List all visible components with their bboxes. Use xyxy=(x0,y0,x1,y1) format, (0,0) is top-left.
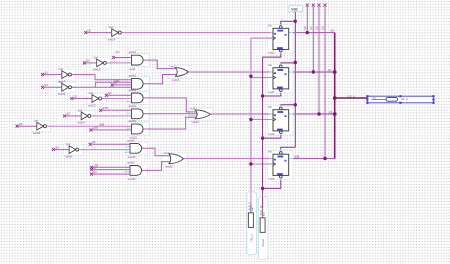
input terminal Q1B (gate feed 5) xyxy=(90,126,132,132)
svg-text:Q1: Q1 xyxy=(309,26,313,30)
svg-text:inst29: inst29 xyxy=(128,155,136,159)
input connector Reset xyxy=(258,197,268,260)
input terminal Q2 (inverter feed 5) xyxy=(70,94,92,100)
wire inv5 out to AND3 xyxy=(102,98,132,100)
svg-text:inst15: inst15 xyxy=(172,78,180,82)
wire clock branch FF3 xyxy=(251,119,273,121)
svg-text:Q3: Q3 xyxy=(55,145,59,149)
svg-text:Q1: Q1 xyxy=(44,83,48,87)
svg-text:an3b2: an3b2 xyxy=(129,119,137,123)
Vdd rail wire xyxy=(294,12,296,148)
svg-text:Q1B: Q1B xyxy=(102,106,108,110)
input terminal Q3 (inverter feed 7) xyxy=(16,122,37,128)
svg-text:inst24: inst24 xyxy=(77,121,85,125)
svg-text:inst11: inst11 xyxy=(65,154,73,158)
inverter inst19 xyxy=(56,67,76,83)
junction xyxy=(261,94,264,97)
input connector Clk_in xyxy=(247,192,257,255)
input terminal Q1 (gate feed 3) xyxy=(105,91,132,97)
svg-text:Q3..0: Q3..0 xyxy=(348,94,355,98)
AND gate inst30 xyxy=(125,161,148,182)
svg-text:inst2: inst2 xyxy=(268,90,274,94)
wire AND2 out to xor1 in2 xyxy=(143,75,176,84)
svg-text:1u4: 1u4 xyxy=(59,67,64,71)
terminal rail Q3 xyxy=(321,4,327,159)
wire FF4 Q to bus xyxy=(294,158,335,160)
wire clock branch FF4 xyxy=(251,163,273,165)
flip-flop inst1 xyxy=(268,24,294,55)
junction xyxy=(323,157,326,160)
wire Vdd to FF4 PRE xyxy=(281,147,296,149)
AND gate inst7 xyxy=(126,73,149,90)
junction xyxy=(333,96,337,100)
junction xyxy=(294,20,297,23)
svg-text:Q3: Q3 xyxy=(92,140,96,144)
svg-text:inst3: inst3 xyxy=(268,132,274,136)
svg-text:inst6: inst6 xyxy=(129,67,135,71)
wire AND4 out to xor2 in2 xyxy=(143,113,196,115)
svg-text:XLXI_10: XLXI_10 xyxy=(259,205,263,216)
inverter inst23 xyxy=(86,91,106,107)
inverter inst20 xyxy=(56,80,76,96)
input terminal Q1 (inverter feed 3) xyxy=(41,70,62,76)
wire FF1 CLR to clear rail xyxy=(263,54,281,189)
wire FF2 Q to bus xyxy=(294,68,335,72)
svg-text:inst23: inst23 xyxy=(88,103,96,107)
svg-text:Q0: Q0 xyxy=(331,29,335,33)
wire inv8 out to AND6 xyxy=(79,149,130,151)
svg-text:Q2: Q2 xyxy=(93,166,97,170)
svg-text:XLXI_9: XLXI_9 xyxy=(247,201,251,210)
svg-text:1u4: 1u4 xyxy=(34,119,39,123)
svg-text:Q3: Q3 xyxy=(321,26,325,30)
junction xyxy=(312,70,315,73)
bus Q3..0 vertical xyxy=(334,33,336,159)
svg-text:Reset: Reset xyxy=(261,239,265,247)
input terminal Q1 (gate feed 7) xyxy=(90,163,130,169)
junction xyxy=(333,70,337,74)
svg-text:Q1: Q1 xyxy=(116,50,120,54)
AND gate inst10 xyxy=(126,119,149,140)
inverter inst25 xyxy=(31,119,51,135)
inverter inst14 xyxy=(106,25,126,41)
svg-text:inst20: inst20 xyxy=(58,92,66,96)
svg-text:an3b2: an3b2 xyxy=(129,104,137,108)
svg-text:xor2: xor2 xyxy=(164,151,170,155)
junction xyxy=(261,187,264,190)
input terminal Q3 (inverter feed 8) xyxy=(52,145,69,151)
wire inv3 out to AND2 in1 (elbow) xyxy=(72,75,132,80)
output display U1 xyxy=(366,95,434,104)
svg-text:inst25: inst25 xyxy=(33,131,41,135)
svg-text:inst26: inst26 xyxy=(165,165,173,169)
svg-text:Q0: Q0 xyxy=(303,26,307,30)
svg-text:Q2: Q2 xyxy=(329,110,333,114)
wire FF3 Q to bus xyxy=(294,110,335,114)
wire xor1 out to FF2 D xyxy=(188,71,270,73)
input terminal Q2 (inverter feed 6) xyxy=(63,112,81,118)
svg-text:an4b3: an4b3 xyxy=(127,138,135,142)
wire AND7 out to or3 in2 xyxy=(142,162,170,171)
junction xyxy=(249,75,252,78)
svg-text:1u4: 1u4 xyxy=(66,142,71,146)
flip-flop inst3 xyxy=(268,105,294,136)
input terminal Q3 (gate feed 9) xyxy=(90,170,130,176)
wire inv7 out to AND5 xyxy=(47,122,132,126)
AND gate inst6 xyxy=(126,50,149,71)
input terminal Q0 (inverter feed 2) xyxy=(83,59,97,65)
wire or3 out to FF4 D xyxy=(184,158,271,160)
junction xyxy=(317,112,320,115)
input terminal Q1 (inverter feed 4) xyxy=(41,83,62,89)
svg-text:ibuf: ibuf xyxy=(252,207,254,211)
wire Vdd to FF1 PRE xyxy=(281,21,296,24)
svg-text:Q3: Q3 xyxy=(93,170,97,174)
svg-text:Q1: Q1 xyxy=(108,91,112,95)
svg-text:xor2: xor2 xyxy=(190,107,196,111)
input terminal Q0 (inverter feed 1) xyxy=(84,28,112,34)
svg-text:an3b2: an3b2 xyxy=(129,88,137,92)
svg-text:Clk_in: Clk_in xyxy=(250,233,254,241)
wire AND1 out to xor1 in1 xyxy=(143,60,176,69)
junction xyxy=(261,136,264,139)
wire FF1 Q to bus xyxy=(294,29,335,33)
wire FF2 CLR branch xyxy=(263,93,281,96)
input terminal Q2 (gate feed 8) xyxy=(90,166,130,172)
svg-text:1u4: 1u4 xyxy=(59,80,64,84)
svg-text:Q0B: Q0B xyxy=(99,122,104,126)
wire AND6 out to or3 in1 xyxy=(142,148,170,156)
svg-text:Vdd: Vdd xyxy=(291,8,297,12)
wire inv4 out to AND2 in2/in4 (elbow) xyxy=(72,79,132,88)
svg-text:Q0B: Q0B xyxy=(114,79,119,83)
wire inv6 out to AND4 xyxy=(91,115,132,117)
svg-text:inst30: inst30 xyxy=(128,177,136,181)
svg-text:an4b3: an4b3 xyxy=(129,73,137,77)
inverter inst24 xyxy=(76,108,96,124)
inverter inst18 xyxy=(91,55,111,71)
gate inst26 xyxy=(163,151,188,169)
svg-text:ibuf: ibuf xyxy=(264,212,266,216)
wire AND5 out to xor2 in3 xyxy=(143,117,196,129)
bus Q3..0 to display xyxy=(335,94,368,98)
svg-text:Q1: Q1 xyxy=(44,70,48,74)
Vdd power symbol xyxy=(289,6,303,12)
inverter inst11 xyxy=(64,142,84,158)
svg-text:Q0: Q0 xyxy=(86,59,90,63)
svg-text:inst18: inst18 xyxy=(93,68,101,72)
svg-text:d3..0: d3..0 xyxy=(401,97,408,101)
svg-text:Q3: Q3 xyxy=(19,122,23,126)
wire Vdd to FF2 PRE xyxy=(281,62,296,64)
svg-text:1u4: 1u4 xyxy=(89,91,94,95)
input terminal Q1B (gate feed 4) xyxy=(99,106,131,112)
svg-text:Q2: Q2 xyxy=(74,94,78,98)
terminal rail Q2 xyxy=(315,4,321,115)
terminal rail Q1 xyxy=(309,4,315,73)
AND gate inst9 xyxy=(126,104,149,120)
wire xor2 out to FF3 D xyxy=(210,113,270,115)
junction xyxy=(306,31,309,34)
svg-text:Q0: Q0 xyxy=(88,28,92,32)
flip-flop inst4 xyxy=(268,149,300,180)
svg-text:Q2: Q2 xyxy=(66,112,70,116)
junction xyxy=(294,61,297,64)
wire clear rail to Reset connector xyxy=(262,188,264,209)
wire inv1 out to FF1 D xyxy=(121,32,270,34)
junction xyxy=(249,162,252,165)
input terminal Q3 (gate feed 6) xyxy=(89,140,130,146)
flip-flop inst2 xyxy=(268,63,294,94)
wire clock branch FF2 xyxy=(251,77,273,79)
svg-text:1u4: 1u4 xyxy=(93,55,98,59)
svg-text:Q1: Q1 xyxy=(328,68,332,72)
junction xyxy=(249,118,252,121)
input terminal Q1 (gate feed 1) xyxy=(112,50,132,59)
gate inst15 xyxy=(169,64,192,82)
gate inst21 xyxy=(189,107,214,125)
svg-text:1u4: 1u4 xyxy=(78,108,83,112)
clock rail from Clk_in connector xyxy=(251,38,273,203)
wire AND3 out to xor2 in1 xyxy=(143,98,196,112)
junction xyxy=(294,103,297,106)
wire FF4 CLR branch xyxy=(263,180,281,188)
svg-text:an4b3: an4b3 xyxy=(127,161,135,165)
svg-text:inst21: inst21 xyxy=(192,120,200,124)
wire FF3 CLR branch xyxy=(263,135,281,138)
svg-text:1u4: 1u4 xyxy=(108,25,113,29)
input terminal Q1 (gate feed 2) xyxy=(111,81,132,87)
wire inv2 out to AND1 xyxy=(106,62,131,64)
svg-text:an2b2: an2b2 xyxy=(129,50,137,54)
svg-text:xor2: xor2 xyxy=(170,64,176,68)
svg-text:inst14: inst14 xyxy=(108,37,116,41)
svg-text:inst4: inst4 xyxy=(268,177,274,181)
junction xyxy=(333,112,337,116)
AND gate inst8 xyxy=(126,88,149,104)
terminal rail Q0 xyxy=(303,4,309,33)
wire Vdd to FF3 PRE xyxy=(281,104,296,106)
svg-text:inst1: inst1 xyxy=(268,51,274,55)
AND gate inst29 xyxy=(125,138,148,159)
svg-text:Q2: Q2 xyxy=(315,26,319,30)
